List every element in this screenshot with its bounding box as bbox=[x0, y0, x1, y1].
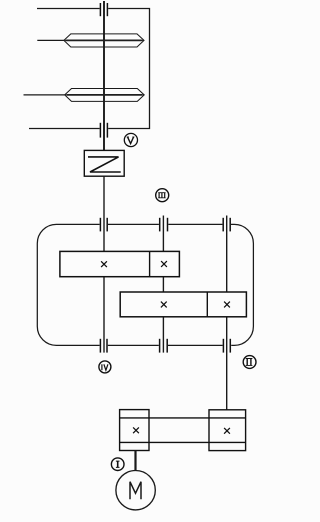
gear block upper bbox=[60, 251, 179, 276]
node IV label bbox=[99, 361, 111, 373]
bearing seals on gearbox top edge, shaft IV bbox=[159, 218, 161, 232]
belt pulley on shaft II bbox=[209, 410, 246, 451]
coupling bottom on shaft V bbox=[99, 123, 101, 138]
node III label bbox=[156, 189, 169, 202]
node I label bbox=[111, 458, 124, 471]
fixed-gear mark x on shaft IV lower bbox=[161, 302, 167, 308]
wire: shaft IV lower segment bbox=[162, 317, 164, 353]
roller 2 (lower elongated hexagon) bbox=[65, 89, 145, 102]
bearing seals on gearbox top edge, shaft III bbox=[99, 218, 101, 232]
belt band top bbox=[120, 417, 246, 419]
wire: shaft of roller 1 bbox=[37, 39, 64, 41]
bearing seals on gearbox top edge, shaft II bbox=[222, 218, 224, 232]
fixed mark x on pulley I bbox=[133, 427, 139, 433]
belt band bottom bbox=[120, 441, 246, 443]
wire: shaft III lower segment bbox=[103, 277, 105, 353]
wire: shaft IV stub above gearbox bbox=[162, 216, 164, 252]
wire: bottom frame line left bbox=[29, 128, 100, 130]
motor M circle bbox=[116, 471, 155, 510]
bearing seals on gearbox bottom edge, shaft IV bbox=[159, 339, 161, 353]
fixed-gear mark x on shaft II lower bbox=[224, 302, 230, 308]
wire: shaft IV between gear blocks bbox=[162, 277, 164, 292]
roller 1 (upper elongated hexagon) bbox=[64, 34, 144, 47]
bearing seals on gearbox bottom edge, shaft III bbox=[99, 339, 101, 353]
fixed-gear mark x on shaft IV bbox=[161, 261, 167, 267]
gear block lower divider bbox=[206, 292, 208, 317]
node II label bbox=[243, 356, 256, 369]
wire: top frame right segment + right frame line + bottom right segment bbox=[108, 9, 149, 129]
shaft V vertical line bbox=[103, 1, 105, 150]
wire: shaft III from variator into gearbox bbox=[103, 176, 105, 252]
wire: top frame line left bbox=[37, 8, 100, 10]
coupling top on shaft V bbox=[99, 3, 101, 16]
belt pulley on shaft I bbox=[120, 410, 149, 451]
wire: shaft II from gearbox down to belt pulley bbox=[226, 317, 228, 410]
fixed mark x on pulley II bbox=[224, 428, 230, 434]
motor M letter bbox=[130, 482, 141, 500]
wire: shaft II upper segment bbox=[226, 216, 228, 293]
variator Z symbol bbox=[88, 157, 121, 172]
gearbox housing (rounded rect with gaps at shaft seals) bbox=[37, 224, 253, 345]
bearing seals on gearbox bottom edge, shaft II bbox=[222, 339, 224, 353]
gear block upper divider bbox=[149, 251, 151, 276]
wire: shaft of roller 2 bbox=[24, 94, 66, 96]
variator box bbox=[84, 150, 124, 176]
fixed-gear mark x on shaft III bbox=[101, 261, 107, 267]
gear block lower bbox=[120, 292, 246, 317]
node V label bbox=[124, 133, 137, 146]
wire: motor shaft I bbox=[134, 451, 136, 471]
